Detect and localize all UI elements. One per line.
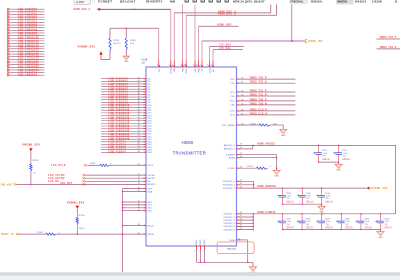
left pin wire LCD_TxDATA0 bbox=[101, 77, 151, 80]
svg-text:OVDDQ2_5: OVDDQ2_5 bbox=[223, 226, 235, 228]
pin IOVDDQ8_2 stub bbox=[223, 183, 254, 187]
svg-text:MSHBA,: MSHBA, bbox=[311, 0, 323, 3]
svg-text:SMD62A: SMD62A bbox=[227, 247, 236, 250]
svg-text:CLK+: CLK+ bbox=[230, 111, 236, 113]
svg-text:0.1uF: 0.1uF bbox=[287, 221, 291, 223]
svg-text:B: B bbox=[395, 0, 397, 3]
svg-text:RESET#: RESET# bbox=[148, 184, 157, 186]
wire LCD_VSYNC bbox=[48, 174, 155, 177]
svg-text:16: 16 bbox=[240, 156, 242, 158]
svg-text:66: 66 bbox=[242, 109, 244, 111]
svg-text:TX1-: TX1- bbox=[230, 96, 235, 98]
svg-text:BELGIA7: BELGIA7 bbox=[120, 0, 136, 3]
svg-text:TMDS_TX2_N: TMDS_TX2_N bbox=[380, 47, 397, 49]
svg-text:IOVDDQ8_1: IOVDDQ8_1 bbox=[223, 181, 236, 183]
net stub LCD_TxDATA4 (X mark, wire, red label) bbox=[7, 19, 45, 22]
svg-text:12: 12 bbox=[240, 180, 242, 182]
left pin wire LCD_TxDATA4 bbox=[101, 88, 151, 91]
svg-text:SPDIF_TX: SPDIF_TX bbox=[1, 234, 14, 236]
junctions join3 bbox=[282, 229, 381, 230]
svg-text:31: 31 bbox=[138, 174, 140, 176]
svg-text:HDMI: HDMI bbox=[181, 140, 193, 145]
pin OVDDQ2_4 stub bbox=[223, 222, 253, 226]
pin AGND stub bbox=[229, 156, 277, 160]
svg-text:TRANSMITTER: TRANSMITTER bbox=[173, 151, 206, 156]
junction IO_SEL gnd bbox=[276, 168, 277, 169]
svg-text:52: 52 bbox=[138, 135, 140, 137]
svg-text:60: 60 bbox=[242, 78, 244, 80]
left pin wire LCD_TxDATA18 bbox=[101, 125, 152, 128]
pin CGND stub bbox=[229, 238, 247, 242]
svg-text:R2107: R2107 bbox=[37, 232, 44, 234]
svg-text:TMDS_TX2_P: TMDS_TX2_P bbox=[380, 37, 397, 39]
junction join2 a bbox=[282, 204, 283, 205]
svg-text:0402_CC: 0402_CC bbox=[286, 201, 294, 203]
svg-text:24: 24 bbox=[240, 225, 242, 227]
net stub LCD_TxDATA24 (X mark, wire, red label) bbox=[7, 71, 45, 74]
svg-text:LCD_HSYNC: LCD_HSYNC bbox=[48, 178, 65, 180]
svg-text:LCD_PCLK: LCD_PCLK bbox=[51, 165, 66, 167]
svg-text:R238: R238 bbox=[90, 163, 96, 165]
wire TMDS_TX2_P bbox=[230, 78, 296, 81]
svg-text:LCD_TxDATA1: LCD_TxDATA1 bbox=[18, 74, 38, 77]
svg-text:62: 62 bbox=[242, 91, 244, 93]
svg-text:30: 30 bbox=[138, 77, 140, 79]
svg-text:[]IRL: []IRL bbox=[245, 0, 253, 3]
svg-text:0402_CC: 0402_CC bbox=[326, 227, 334, 229]
svg-text:35: 35 bbox=[138, 187, 140, 189]
net stub LCD_TxDATA25 (X mark, wire, red label) bbox=[7, 74, 45, 77]
svg-text:DE: DE bbox=[148, 181, 152, 183]
svg-text:HDMI_DDC_D: HDMI_DDC_D bbox=[218, 14, 236, 16]
bottom pin DGND1 bbox=[195, 239, 199, 262]
wire CGND down bbox=[247, 240, 249, 262]
junction join1 b bbox=[338, 161, 339, 162]
junction C2160 top bbox=[318, 145, 319, 146]
left pin wire LCD_TxCTL2 bbox=[101, 146, 153, 149]
wire right-edge vertical bbox=[395, 145, 397, 213]
svg-text:HDMI_HPD: HDMI_HPD bbox=[217, 24, 232, 26]
svg-text:TMDS_TX2_P: TMDS_TX2_P bbox=[249, 78, 267, 80]
svg-text:TMDS_TX1_N: TMDS_TX1_N bbox=[249, 94, 267, 96]
wire vertical CEC to pin bbox=[170, 9, 172, 66]
svg-text:VHDMI_3V3: VHDMI_3V3 bbox=[67, 200, 85, 204]
svg-text:25V: 25V bbox=[287, 198, 291, 200]
svg-text:HPA: HPA bbox=[181, 68, 184, 72]
resistor R2108 bbox=[30, 160, 39, 184]
junction SDA on bus bbox=[122, 191, 123, 192]
svg-text:33: 33 bbox=[138, 183, 140, 185]
power arrow VHDMI_3V3 right bbox=[366, 186, 388, 190]
svg-text:LCD_DE: LCD_DE bbox=[48, 181, 59, 183]
wire vertical SCL to pin bbox=[212, 50, 214, 66]
svg-text:WAB/14: WAB/14 bbox=[355, 0, 367, 3]
net stub LCD_TxDATA22 (X mark, wire, red label) bbox=[7, 66, 45, 69]
off-page label DM_eHP bbox=[1, 183, 16, 186]
svg-text:R2101: R2101 bbox=[130, 40, 137, 42]
svg-text:31: 31 bbox=[138, 180, 140, 182]
resistor R2107 inline bbox=[19, 232, 61, 235]
net stub LCD_TxDATA17 (X mark, wire, red label) bbox=[7, 53, 45, 56]
svg-text:XSWING: XSWING bbox=[226, 155, 235, 157]
left pin wire LCD_TxDATA11 bbox=[101, 106, 152, 109]
svg-text:41: 41 bbox=[138, 106, 140, 108]
chip U218 HDMI TRANSMITTER body bbox=[146, 67, 237, 246]
svg-text:U218: U218 bbox=[142, 58, 148, 61]
svg-text:53: 53 bbox=[138, 138, 140, 140]
wire TMDS_CLK_P bbox=[230, 109, 296, 112]
svg-text:54: 54 bbox=[138, 140, 140, 142]
svg-text:32: 32 bbox=[138, 83, 140, 85]
svg-text:1K: 1K bbox=[33, 173, 36, 175]
svg-text:HDMI_CVDD10: HDMI_CVDD10 bbox=[257, 212, 276, 214]
svg-text:DDCA: DDCA bbox=[170, 68, 173, 74]
svg-text:19: 19 bbox=[240, 147, 242, 149]
net stub LCD_TxDATA11 (X mark, wire, red label) bbox=[7, 37, 45, 40]
junction C2168 top bbox=[341, 213, 342, 214]
wire I2C_SCL bbox=[213, 48, 243, 50]
svg-text:R2108: R2108 bbox=[33, 160, 40, 162]
wire SD3 from vertical bbox=[123, 209, 153, 212]
svg-text:0.1uF: 0.1uF bbox=[365, 221, 369, 223]
svg-text:34: 34 bbox=[138, 88, 140, 90]
toolbar icon row bbox=[185, 0, 228, 2]
net label LCD_PCLK with chevron bbox=[51, 164, 87, 167]
left pin wire LCD_TxDATA12 bbox=[101, 109, 152, 112]
junction OVDDQ2_3 bbox=[253, 219, 254, 220]
junction bottom c bbox=[247, 262, 248, 263]
junction OVDDQ2_4 bbox=[253, 223, 254, 224]
toolbar chip 1 bbox=[289, 0, 308, 4]
svg-text:TMDS_CLK_P: TMDS_CLK_P bbox=[249, 109, 267, 111]
svg-text:25V: 25V bbox=[385, 224, 389, 226]
power symbol VHDMI_3V3 left bbox=[22, 142, 40, 164]
svg-text:56: 56 bbox=[138, 146, 140, 148]
svg-text:LCD_RST: LCD_RST bbox=[60, 183, 73, 185]
junction OVDDQ2_1 bbox=[253, 213, 254, 214]
wire cap join rail3 bbox=[283, 229, 381, 231]
net stub LCD_TxDATA2 (X mark, wire, red label) bbox=[7, 13, 45, 16]
wire TMDS_TX0_P bbox=[230, 99, 296, 102]
svg-text:R2106: R2106 bbox=[79, 215, 86, 217]
svg-text:HDMI_INT: HDMI_INT bbox=[308, 40, 323, 43]
net stub LCD_TxDATA7 (X mark, wire, red label) bbox=[7, 26, 45, 29]
svg-text:SD0: SD0 bbox=[148, 202, 153, 204]
power symbol VHDMI_3V3 mid bbox=[67, 200, 85, 217]
capacitor C2166 bbox=[297, 214, 314, 230]
svg-text:OVDDQ2_2: OVDDQ2_2 bbox=[223, 217, 235, 219]
svg-text:GND: GND bbox=[274, 176, 279, 178]
wire HDMI_CEC_A bbox=[100, 9, 171, 11]
capacitor C2169 bbox=[356, 214, 373, 230]
svg-text:LCD_VSYNC: LCD_VSYNC bbox=[48, 175, 65, 177]
svg-text:42: 42 bbox=[138, 109, 140, 111]
pin XSWING stub bbox=[226, 153, 276, 157]
net stub LCD_TxDATA21 (X mark, wire, red label) bbox=[7, 63, 45, 66]
junction IOVDD a bbox=[253, 184, 254, 185]
svg-text:4.7K: 4.7K bbox=[130, 43, 135, 45]
wire vertical INT to pin bbox=[201, 41, 203, 66]
svg-text:23: 23 bbox=[138, 164, 140, 166]
resistor R2101 bbox=[125, 28, 137, 56]
net stub LCD_TxDATA14 (X mark, wire, red label) bbox=[7, 45, 45, 48]
svg-text:NL/1K: NL/1K bbox=[79, 228, 85, 230]
junction bottom a bbox=[200, 262, 201, 263]
svg-text:68: 68 bbox=[242, 124, 244, 126]
net stub LCD_TxDATA23 (X mark, wire, red label) bbox=[7, 69, 45, 72]
svg-text:57: 57 bbox=[138, 148, 140, 150]
svg-text:5: 5 bbox=[157, 64, 158, 66]
svg-text:25V: 25V bbox=[345, 224, 349, 226]
net stub LCD_TxDATA3 (X mark, wire, red label) bbox=[7, 16, 45, 19]
wire XSWING-AGND vertical bbox=[276, 155, 278, 169]
top pin numbers bbox=[157, 64, 212, 66]
capacitor C21610 bbox=[375, 214, 392, 230]
capacitor C2164 bbox=[316, 188, 333, 204]
svg-text:48: 48 bbox=[138, 125, 140, 127]
svg-text:TMDS_CLK_N: TMDS_CLK_N bbox=[249, 113, 267, 115]
svg-text:25V: 25V bbox=[365, 224, 369, 226]
svg-text:36: 36 bbox=[138, 190, 140, 192]
capacitor C2161 bbox=[333, 145, 350, 162]
svg-text:NL27: NL27 bbox=[132, 9, 137, 11]
svg-text:0.1uF: 0.1uF bbox=[326, 196, 330, 198]
junction OVDDQ2_5 bbox=[253, 226, 254, 227]
svg-text:SDA: SDA bbox=[148, 190, 153, 193]
junction IOVDD b bbox=[253, 187, 254, 188]
svg-text:VHDMI_3V3: VHDMI_3V3 bbox=[371, 186, 388, 190]
svg-text:AGND: AGND bbox=[229, 157, 236, 160]
wire TMDS_CLK_N bbox=[230, 113, 295, 116]
svg-text:25V: 25V bbox=[326, 224, 330, 226]
wire TMDS_TX1_P bbox=[230, 90, 296, 93]
svg-text:49: 49 bbox=[138, 127, 140, 129]
left pin wire LCD_TxDATA21 bbox=[101, 133, 152, 136]
left pin wire LCD_TxDATA20 bbox=[101, 130, 152, 133]
svg-text:CLK-: CLK- bbox=[230, 115, 235, 117]
svg-text:DE4: DE4 bbox=[148, 152, 153, 154]
junction OVDDQ2_2 bbox=[253, 216, 254, 217]
wire vertical SDA to pin bbox=[209, 46, 211, 66]
top pin names vertical bbox=[159, 68, 215, 74]
wire bottom ground run bbox=[197, 261, 254, 263]
svg-text:61: 61 bbox=[242, 82, 244, 84]
left pin wire LCD_TxDATA23 bbox=[101, 138, 152, 141]
svg-text:FCRBET: FCRBET bbox=[98, 0, 112, 3]
svg-text:0.1uF: 0.1uF bbox=[306, 196, 310, 198]
svg-text:0.1uF: 0.1uF bbox=[306, 221, 310, 223]
wire LCD_DE bbox=[48, 180, 151, 183]
svg-text:6: 6 bbox=[172, 64, 173, 66]
wire HDMI_INT magenta bbox=[202, 40, 305, 42]
svg-text:0.1uF: 0.1uF bbox=[323, 153, 327, 155]
svg-text:IRIVERTY: IRIVERTY bbox=[146, 0, 163, 3]
pin OVDDQ2_2 stub bbox=[223, 215, 253, 219]
svg-text:TMDS_TX0_N: TMDS_TX0_N bbox=[249, 103, 267, 105]
wire vertical INT branch up bbox=[291, 4, 293, 41]
left pin wire LCD_TxDATA13 bbox=[101, 112, 152, 115]
pin OVDDQ2_3 stub bbox=[223, 218, 253, 222]
svg-text:NL/4.7K: NL/4.7K bbox=[114, 43, 122, 45]
svg-text:GND: GND bbox=[378, 237, 383, 239]
svg-text:0402_CC: 0402_CC bbox=[323, 158, 331, 160]
svg-text:44: 44 bbox=[138, 209, 140, 211]
net stub LCD_TxDATA1 (X mark, wire, red label) bbox=[7, 11, 45, 14]
left pin wire LCD_TxDATA19 bbox=[101, 127, 152, 130]
wire IOVDD join vertical bbox=[253, 181, 255, 188]
pin OVDDQ2_5 stub bbox=[223, 225, 253, 229]
svg-text:EXT_SWING: EXT_SWING bbox=[222, 125, 235, 127]
svg-text:3: 3 bbox=[211, 64, 212, 66]
svg-text:TMDS_TX2_N: TMDS_TX2_N bbox=[249, 82, 267, 84]
svg-text:43: 43 bbox=[138, 207, 140, 209]
svg-text:CEC: CEC bbox=[159, 68, 161, 72]
svg-text:R2102: R2102 bbox=[114, 40, 121, 42]
ground bottom bbox=[249, 262, 256, 274]
junction on pullup rail bbox=[126, 28, 127, 29]
svg-text:64: 64 bbox=[242, 99, 244, 101]
left pin wire LCD_TxCTL4 bbox=[101, 151, 153, 154]
power rail HDMI_AVDD18 bbox=[253, 142, 396, 145]
junction C2169 top bbox=[360, 213, 361, 214]
svg-text:20: 20 bbox=[240, 212, 242, 214]
svg-text:36: 36 bbox=[138, 93, 140, 95]
left pin wire LCD_TxDATA7 bbox=[101, 96, 151, 99]
svg-text:DGND: DGND bbox=[200, 239, 202, 245]
wire LCD_RST long bbox=[17, 183, 157, 186]
ground rail2 caps bbox=[318, 204, 325, 213]
junction join2 b bbox=[302, 204, 303, 205]
power symbol VHDMI_3V3 top bbox=[78, 45, 103, 60]
junction C2167 top bbox=[321, 213, 322, 214]
svg-text:21: 21 bbox=[240, 215, 242, 217]
svg-text:TX0-: TX0- bbox=[230, 105, 235, 107]
wire TMDS_TX0_N bbox=[230, 103, 295, 106]
svg-text:BRKJA: BRKJA bbox=[233, 0, 245, 3]
svg-text:HPD: HPD bbox=[195, 68, 197, 72]
svg-text:DM_eHP: DM_eHP bbox=[1, 184, 12, 186]
svg-text:TX2-: TX2- bbox=[230, 83, 235, 85]
junction C2166 top bbox=[301, 213, 302, 214]
net stub LCD_TxDATA18 (X mark, wire, red label) bbox=[7, 56, 45, 59]
junction SD1 on bus bbox=[122, 204, 123, 205]
wire SD1 from vertical bbox=[123, 204, 153, 207]
pin AVDDQ3_1 stub bbox=[224, 144, 253, 148]
svg-text:0: 0 bbox=[59, 232, 61, 234]
ground under R2311 bbox=[280, 130, 287, 137]
svg-text:MCLK: MCLK bbox=[148, 225, 155, 227]
refdes U218 bbox=[142, 58, 148, 64]
left pin wire LCD_TxDATA8 bbox=[101, 98, 151, 101]
svg-text:63: 63 bbox=[242, 95, 244, 97]
left pin wire LCD_TxDATA3 bbox=[101, 85, 151, 88]
junction C2163 top bbox=[302, 187, 303, 188]
svg-text:SD3: SD3 bbox=[148, 211, 153, 213]
svg-text:VHDMI_3V3: VHDMI_3V3 bbox=[78, 45, 96, 49]
svg-text:I2C_SCL: I2C_SCL bbox=[220, 48, 232, 50]
svg-text:VHDMI_3V3: VHDMI_3V3 bbox=[22, 142, 40, 146]
svg-text:FIBEMAL: FIBEMAL bbox=[291, 0, 305, 3]
svg-text:25V: 25V bbox=[343, 156, 347, 158]
svg-text:OVDDQ2_1: OVDDQ2_1 bbox=[223, 214, 235, 216]
wire HDMI_DDC_A bbox=[174, 4, 270, 13]
junction HDMI_INT bbox=[291, 40, 293, 42]
pin OVDDQ2_6 stub bbox=[223, 228, 253, 232]
svg-text:DGND: DGND bbox=[196, 239, 198, 245]
svg-text:24F: 24F bbox=[142, 62, 146, 64]
svg-text:47: 47 bbox=[138, 122, 140, 124]
capacitor C2162 bbox=[277, 188, 294, 204]
ground IO_SEL bbox=[273, 168, 280, 177]
wire vertical audio bus bbox=[122, 189, 124, 273]
bottom pin DGND3 bbox=[203, 239, 207, 262]
wire SCK from vertical bbox=[123, 187, 153, 190]
capacitor C2168 bbox=[336, 214, 353, 230]
junction C21610 top bbox=[380, 213, 381, 214]
wire SDA from vertical bbox=[123, 190, 153, 193]
svg-text:TX0+: TX0+ bbox=[230, 101, 236, 103]
wire HDMI_HPD bbox=[199, 24, 239, 26]
svg-text:OVDDQ2_6: OVDDQ2_6 bbox=[223, 229, 235, 231]
capacitor C2163 bbox=[297, 188, 314, 204]
svg-text:25V: 25V bbox=[287, 224, 291, 226]
svg-text:IOVDDQ8_3: IOVDDQ8_3 bbox=[223, 188, 236, 190]
left pin wire LCD_TxDATA5 bbox=[101, 91, 151, 94]
svg-text:42: 42 bbox=[138, 204, 140, 206]
svg-text:25V: 25V bbox=[306, 198, 310, 200]
svg-text:0.1uF: 0.1uF bbox=[345, 221, 349, 223]
svg-text:HDMI_AVDD18: HDMI_AVDD18 bbox=[257, 142, 275, 145]
svg-text:25V: 25V bbox=[306, 224, 310, 226]
svg-text:SD2: SD2 bbox=[148, 208, 153, 210]
svg-text:HDMI_CEC_A: HDMI_CEC_A bbox=[74, 8, 91, 11]
wire cap join rail2 bbox=[283, 203, 322, 205]
svg-text:0402_CC: 0402_CC bbox=[326, 201, 334, 203]
wire pullup rail to top pin bbox=[110, 28, 159, 66]
svg-text:SCL: SCL bbox=[213, 69, 215, 73]
net stub LCD_TxDATA5 (X mark, wire, red label) bbox=[7, 21, 45, 24]
wire SD2 from vertical bbox=[123, 207, 153, 210]
bottom pin DGND2 bbox=[199, 239, 203, 262]
pin AVDDQ3_2 stub bbox=[224, 145, 253, 150]
svg-text:30: 30 bbox=[138, 233, 140, 235]
svg-text:DDCD: DDCD bbox=[186, 68, 188, 74]
wire OVDDQ join vertical bbox=[252, 214, 254, 230]
net stub LCD_TxDATA13 (X mark, wire, red label) bbox=[7, 42, 45, 45]
wire SD0 from vertical bbox=[123, 201, 153, 204]
svg-text:25: 25 bbox=[240, 228, 242, 230]
junction join2 c bbox=[321, 204, 322, 205]
svg-text:1/22#B: 1/22#B bbox=[372, 0, 382, 3]
toolbar chip 2 bbox=[336, 0, 354, 4]
svg-text:46: 46 bbox=[138, 119, 140, 121]
net stub LCD_TxDATA19 (X mark, wire, red label) bbox=[7, 58, 45, 61]
ground rail3 caps bbox=[377, 230, 384, 239]
resistor R238 inline bbox=[88, 163, 113, 166]
capacitor C2160 bbox=[313, 145, 330, 162]
left pin wire LCD_TxDATA16 bbox=[101, 119, 152, 122]
junction C2165 top bbox=[282, 213, 283, 214]
svg-text:SD1: SD1 bbox=[148, 205, 153, 207]
svg-text:0402_CC: 0402_CC bbox=[286, 227, 294, 229]
svg-text:J: J bbox=[200, 64, 201, 66]
junction C2162 top bbox=[282, 187, 283, 188]
left pin wire LCD_TxDATA10 bbox=[101, 104, 152, 107]
svg-text:31: 31 bbox=[138, 80, 140, 82]
wire vertical HPD to pin bbox=[198, 26, 200, 66]
wire PCLK to pin bbox=[110, 164, 154, 167]
ground rail1 caps bbox=[335, 162, 342, 172]
